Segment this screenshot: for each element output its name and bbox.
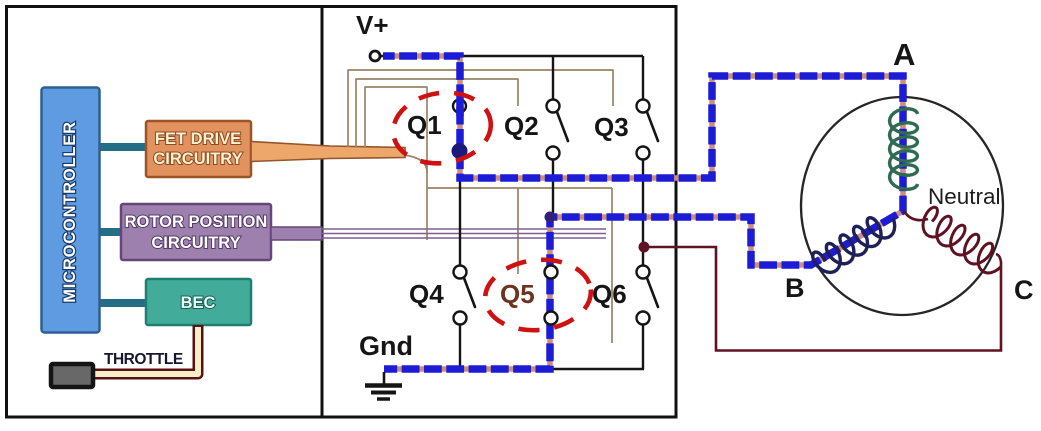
svg-text:Q5: Q5 <box>500 279 535 309</box>
highlight ellipse around Q5 <box>482 255 595 336</box>
transistor Q3 <box>637 100 659 269</box>
svg-text:Gnd: Gnd <box>359 331 413 361</box>
Q1 source node <box>452 143 468 159</box>
V+ rail <box>381 55 643 57</box>
gate line to Q1 <box>365 87 427 240</box>
energized current path underlay <box>383 56 903 369</box>
label Q3 <box>594 112 629 142</box>
throttle connector <box>51 364 93 387</box>
label Q5 <box>500 279 535 309</box>
FET gate drive bundle (orange wire) <box>251 142 405 162</box>
svg-text:BEC: BEC <box>181 294 216 312</box>
lower gate bus <box>404 155 612 188</box>
gate line to Q5 <box>517 188 519 274</box>
throttle wire (BEC to connector) <box>92 325 198 374</box>
label Q1 <box>407 110 442 140</box>
label V+ <box>356 10 389 40</box>
svg-text:C: C <box>1014 275 1034 305</box>
rotor position circuitry block <box>121 204 271 260</box>
svg-text:Q6: Q6 <box>592 279 627 309</box>
ground rail <box>550 368 644 370</box>
rotor position sense bundle (purple wire) <box>271 227 322 240</box>
wire: microcontroller to BEC <box>97 299 148 307</box>
svg-text:CIRCUITRY: CIRCUITRY <box>153 150 242 168</box>
svg-text:ROTOR POSITION: ROTOR POSITION <box>125 213 268 231</box>
svg-text:A: A <box>893 37 915 72</box>
svg-text:V+: V+ <box>356 10 389 40</box>
phase B junction node <box>545 212 556 223</box>
label C <box>1014 275 1034 305</box>
wire segment through Q1 <box>456 99 464 116</box>
svg-text:B: B <box>785 273 805 303</box>
winding A (green coil) <box>890 109 918 189</box>
label Gnd <box>359 331 413 361</box>
sense line 3 <box>322 237 606 239</box>
ground symbol <box>365 372 402 399</box>
controller enclosure box <box>7 7 323 418</box>
transistor Q5 terminals <box>545 266 558 325</box>
neutral hook <box>904 211 928 220</box>
svg-text:THROTTLE: THROTTLE <box>104 351 183 368</box>
svg-text:MICROCONTROLLER: MICROCONTROLLER <box>61 121 79 303</box>
wire: microcontroller to FET drive <box>97 143 148 151</box>
FET drive circuitry block <box>146 121 251 177</box>
transistor Q6 <box>637 266 659 370</box>
svg-text:Q3: Q3 <box>594 112 629 142</box>
label Q4 <box>409 279 444 309</box>
svg-text:Q2: Q2 <box>504 111 539 141</box>
sense line 1 <box>322 228 606 230</box>
transistor Q4 <box>454 178 476 367</box>
Q2 drain riser <box>552 56 554 100</box>
gate line to Q6 <box>611 188 613 343</box>
svg-text:FET DRIVE: FET DRIVE <box>155 130 241 148</box>
wire: microcontroller to rotor position <box>97 228 124 236</box>
microcontroller U1 <box>42 88 100 333</box>
label Q6 <box>592 279 627 309</box>
FET bridge enclosure box <box>322 7 676 418</box>
transistor Q1 column <box>453 56 466 178</box>
V+ terminal <box>370 51 380 61</box>
transistor Q2 <box>547 100 569 216</box>
winding B (navy coil) <box>813 218 895 273</box>
svg-text:CIRCUITRY: CIRCUITRY <box>151 234 240 252</box>
gate line to Q3 <box>348 70 613 147</box>
label THROTTLE <box>104 351 183 368</box>
winding C (maroon coil) <box>923 207 1001 273</box>
energized current path (blue dashed) <box>383 56 903 369</box>
label Q2 <box>504 111 539 141</box>
phase C wire <box>644 247 1001 351</box>
svg-text:Neutral: Neutral <box>928 184 1001 209</box>
Q3 drain riser <box>642 56 644 100</box>
label Neutral <box>928 184 1001 209</box>
sense line 2 <box>322 233 606 235</box>
BEC block <box>146 279 251 325</box>
motor stator circle <box>801 97 1003 315</box>
svg-text:Q1: Q1 <box>407 110 442 140</box>
gate line to Q2 <box>356 79 518 147</box>
label B <box>785 273 805 303</box>
phase C node <box>639 242 650 253</box>
label A <box>893 37 915 72</box>
highlight ellipse around Q1 <box>389 87 496 170</box>
svg-text:Q4: Q4 <box>409 279 444 309</box>
